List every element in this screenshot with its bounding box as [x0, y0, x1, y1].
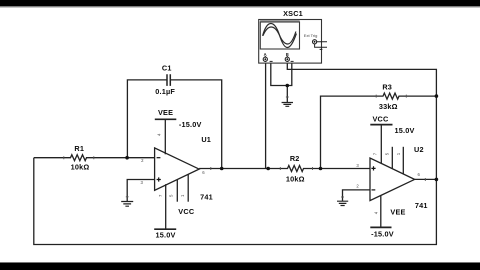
wire: scope ground lead	[286, 86, 288, 103]
junction node at R1 / C1 feedback / U1 pin2	[125, 156, 129, 160]
wire: middle net U1 output to U2 pin3 with resistor R2 inline	[199, 166, 370, 172]
op-amp U1 pin 7 lead to VCC rail	[165, 184, 167, 229]
wire: scope channel A- to ground node	[271, 61, 288, 85]
ground for U2 inverting input	[337, 201, 348, 205]
svg-text:Ext Trig: Ext Trig	[304, 33, 318, 38]
wire: outer loop (scope B+ down right side, bottom wire, left vertical)	[34, 61, 437, 244]
scope terminal A	[263, 56, 272, 62]
op-amp U1 triangle	[155, 148, 200, 190]
junction node at U2 output	[435, 178, 439, 182]
junction node at scope A tap on middle net	[266, 167, 270, 171]
op-amp U2 pin 7 lead to VCC rail	[380, 125, 382, 164]
svg-text:0.1µF: 0.1µF	[155, 87, 175, 96]
op-amp U2 pin 4 lead to VEE rail	[380, 196, 382, 228]
junction node at U1 output / C1 feedback	[220, 167, 224, 171]
wire: U1 pin3 branch to ground	[127, 180, 154, 202]
VCC power rail bar below U1	[154, 228, 176, 230]
svg-text:-15.0V: -15.0V	[179, 120, 202, 129]
oscilloscope screen sine wave trace 2	[263, 27, 296, 44]
svg-text:U2: U2	[414, 145, 424, 154]
op-amp U1 pin 5 stub	[176, 180, 178, 202]
svg-text:R2: R2	[290, 154, 300, 163]
wire: U2 output to right vertical	[415, 178, 437, 180]
VEE power rail bar above U1	[155, 118, 177, 120]
oscilloscope screen sine wave trace 1	[263, 24, 297, 48]
pin-end tick marks on component leads	[64, 95, 426, 197]
wire: C1 feedback loop left side and top to capacitor	[127, 80, 167, 158]
junction node at R3 left tap on middle net	[319, 167, 323, 171]
svg-text:15.0V: 15.0V	[155, 230, 175, 239]
svg-text:741: 741	[415, 201, 428, 210]
svg-text:VCC: VCC	[372, 115, 389, 124]
VEE power rail bar below U2	[370, 226, 391, 228]
svg-text:U1: U1	[201, 135, 211, 144]
wire: R3 feedback branch with resistor R3 inline	[321, 93, 437, 168]
op-amp U2 triangle	[370, 158, 415, 201]
svg-text:10kΩ: 10kΩ	[286, 174, 305, 183]
junction node at R3 right / output column	[435, 94, 439, 98]
letterbox bottom bar	[0, 262, 480, 270]
op-amp U1 pin 4 lead to VEE rail	[164, 120, 166, 155]
capacitor C1 plates	[167, 74, 170, 86]
ground under oscilloscope	[282, 103, 293, 107]
plus sign inside U2	[371, 166, 375, 170]
wire: R1 input branch with resistor R1 inline (left loop top to U1 pin2)	[34, 155, 155, 161]
VCC power rail bar above U2	[370, 124, 392, 126]
Ext Trig terminal	[313, 40, 328, 50]
plus sign inside U1	[157, 177, 161, 181]
svg-text:R1: R1	[74, 144, 84, 153]
op-amp U2 pin 1 stub	[402, 147, 404, 174]
minus sign inside U2	[372, 189, 376, 191]
svg-text:10kΩ: 10kΩ	[71, 163, 90, 172]
letterbox top bar	[0, 0, 480, 7]
svg-text:15.0V: 15.0V	[394, 126, 414, 135]
junction node at scope ground	[286, 84, 290, 88]
wire: C1 feedback loop right side down to U1 output node	[170, 80, 221, 169]
svg-text:XSC1: XSC1	[283, 9, 303, 18]
minus sign inside U1	[157, 157, 161, 159]
svg-text:VEE: VEE	[158, 108, 173, 117]
svg-text:C1: C1	[162, 63, 172, 72]
wire: scope channel A+ down to middle net	[265, 61, 267, 168]
svg-text:VEE: VEE	[390, 207, 405, 216]
op-amp U2 pin 5 stub	[391, 147, 393, 169]
wire: U2 pin2 branch to ground	[343, 190, 371, 201]
svg-text:VCC: VCC	[178, 207, 195, 216]
ground for U1 non-inverting input	[121, 202, 133, 207]
svg-text:R3: R3	[382, 82, 392, 91]
oscilloscope XSC1 body	[259, 20, 322, 64]
op-amp U1 pin 1 stub	[187, 174, 189, 201]
svg-text:741: 741	[200, 192, 213, 201]
scope terminal B	[285, 56, 293, 62]
svg-text:33kΩ: 33kΩ	[379, 102, 398, 111]
svg-text:-15.0V: -15.0V	[371, 229, 394, 238]
wire: scope channel B- stub to ground node	[287, 61, 292, 85]
